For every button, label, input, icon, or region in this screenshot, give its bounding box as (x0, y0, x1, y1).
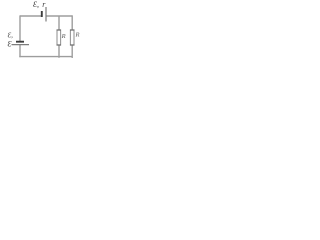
svg-text:R: R (61, 33, 66, 40)
resistor R2 box bottom edge (70, 44, 74, 46)
battery E,r short thick plate (41, 11, 43, 17)
wire left-lower segment (19, 45, 21, 57)
battery 2 (left) long thin plate (12, 44, 30, 46)
svg-text:R: R (75, 31, 80, 38)
wire right-upper segment (to resistor R2) (71, 15, 73, 30)
wire right-lower segment (from resistor R2) (71, 45, 73, 58)
wire top-right segment (46, 15, 72, 17)
wire bottom segment (19, 56, 72, 58)
battery E,r long thin plate (45, 7, 47, 22)
resistor R1 box bottom edge (57, 44, 61, 46)
wire middle branch upper (to resistor R1) (58, 16, 60, 30)
wire top-left segment (20, 15, 41, 17)
svg-text:Ɛ: Ɛ (8, 39, 12, 48)
svg-text:Ɛ,: Ɛ, (33, 0, 39, 9)
wire middle branch lower (from resistor R1) (58, 45, 60, 58)
resistor R1 box (57, 30, 61, 45)
battery 2 (left) short thick plate (16, 41, 24, 43)
resistor R2 box top edge (70, 29, 74, 31)
wire left-upper segment (19, 15, 21, 41)
resistor R1 box top edge (57, 29, 61, 31)
resistor R2 box (70, 30, 74, 45)
